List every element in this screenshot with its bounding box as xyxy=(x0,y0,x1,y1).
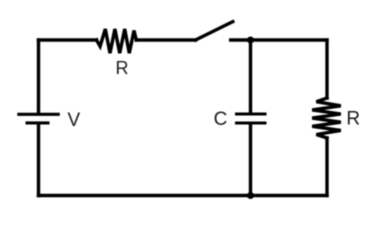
battery V1: long (positive) plate xyxy=(17,113,60,116)
wire: bottom horizontal (bottom-left corner to bottom-right corner) xyxy=(39,194,328,197)
wire: left vertical, bottom segment (battery bottom to bottom-left corner) xyxy=(37,124,40,195)
svg-text:R: R xyxy=(346,109,360,130)
node B (junction dot, bottom of capacitor branch) xyxy=(247,192,254,199)
wire: capacitor branch, lower segment (capacitor bottom plate to node B) xyxy=(249,124,252,195)
wire: right vertical, bottom segment (resistor R2 to bottom-right corner) xyxy=(325,138,328,196)
wire: capacitor branch, upper segment (node A down to capacitor top plate) xyxy=(249,40,252,113)
capacitor C1: top plate xyxy=(235,113,267,116)
resistor R1 (top, zigzag) xyxy=(97,29,137,53)
battery V1: short (negative) plate xyxy=(26,121,50,124)
svg-text:V: V xyxy=(67,110,80,131)
wire: top horizontal, from switch contact through node A to top-right corner xyxy=(231,38,327,41)
resistor R2 (right, vertical zigzag) xyxy=(312,98,341,138)
svg-text:R: R xyxy=(116,58,129,78)
node A (junction dot, top of capacitor branch) xyxy=(247,37,254,44)
wire: top horizontal, from resistor R1 to switch pivot xyxy=(136,38,195,41)
wire: top horizontal, from top-left corner to resistor R1 left lead xyxy=(39,38,97,41)
svg-text:C: C xyxy=(214,109,228,130)
wire: left vertical, top segment (top-left corner to battery top plate) xyxy=(37,40,40,113)
capacitor C1: bottom plate xyxy=(235,122,267,125)
wire: right vertical, top segment (top-right corner to resistor R2 top lead) xyxy=(325,40,328,98)
switch S1 (open, arm) xyxy=(196,22,233,40)
